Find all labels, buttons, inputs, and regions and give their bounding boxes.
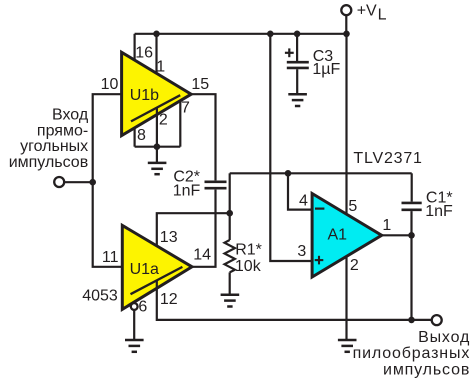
output terminal (432, 315, 442, 325)
wire R1 node up to IN- net (229, 173, 231, 213)
svg-text:угольных: угольных (20, 138, 88, 155)
wire C2 to U1a pin14 (192, 190, 216, 267)
wire A1 pin2 to ground (345, 256, 347, 340)
svg-text:1: 1 (382, 217, 391, 234)
svg-text:16: 16 (135, 44, 153, 61)
svg-text:1µF: 1µF (312, 61, 340, 78)
buffer U1b (122, 52, 192, 135)
node junction rail-VL (343, 31, 350, 38)
wire +V to pin3 of A1 (270, 34, 312, 261)
resistor R1 (225, 213, 235, 295)
terminal +VL (341, 5, 351, 34)
node junction input (89, 179, 96, 186)
pin 6 bubble (131, 303, 138, 310)
label A1 plus (315, 256, 324, 265)
wire input to U1b pin10 (93, 94, 122, 182)
capacitor C1 (402, 203, 422, 210)
capacitor C2 (205, 182, 227, 188)
svg-text:4: 4 (299, 192, 308, 209)
label C3 plus sign (285, 48, 294, 57)
label A1 minus (315, 208, 324, 210)
ground below pin 6 (125, 310, 144, 352)
wire pin16 drop (134, 34, 136, 62)
wire top +VL rail (135, 33, 347, 35)
svg-text:14: 14 (193, 247, 211, 264)
wire input to U1a pin11 (93, 182, 123, 267)
wire output down to rail (410, 235, 412, 320)
node junction rail-pin3drop (267, 31, 274, 38)
switch wiper inside U1b (131, 95, 180, 121)
svg-text:3: 3 (297, 243, 306, 260)
svg-text:R1*: R1* (235, 242, 262, 259)
svg-text:импульсов: импульсов (383, 362, 470, 379)
svg-text:A1: A1 (328, 227, 348, 244)
node junction U1b gnd (154, 143, 161, 150)
svg-text:4053: 4053 (82, 288, 118, 305)
node junction output C1 (408, 232, 415, 239)
wire to A1 pin4 (288, 173, 312, 209)
wire U1b pin7 (179, 100, 181, 147)
svg-text:U1a: U1a (130, 261, 159, 278)
wire U1a pin12 to output rail (157, 281, 432, 320)
wire A1 output (382, 234, 412, 236)
svg-text:1: 1 (156, 58, 165, 75)
ground below A1 (338, 340, 357, 352)
svg-text:5: 5 (348, 198, 357, 215)
wire input terminal to junction (65, 181, 93, 183)
switch wiper inside U1a (131, 267, 183, 294)
svg-text:Вход: Вход (52, 107, 89, 124)
node junction IN- branch (285, 170, 292, 177)
svg-text:L: L (378, 6, 387, 23)
wire U1b 8-2-7 rail (135, 146, 181, 148)
op-amp A1 (312, 194, 382, 278)
wire IN- net horizontal (230, 172, 412, 174)
svg-text:6: 6 (138, 298, 147, 315)
svg-text:импульсов: импульсов (9, 154, 89, 171)
input terminal (54, 177, 64, 187)
node junction rail-C3 (294, 31, 301, 38)
wire IN- net down to C1 (411, 173, 413, 201)
wire C1 to output (410, 211, 412, 235)
svg-text:пилообразных: пилообразных (353, 345, 471, 362)
node junction output rail (408, 317, 415, 324)
wire U1b pin8 (134, 127, 136, 147)
ground below C3 (288, 94, 307, 106)
svg-text:TLV2371: TLV2371 (353, 150, 422, 167)
svg-text:U1b: U1b (130, 87, 159, 104)
svg-text:8: 8 (137, 127, 146, 144)
wire pin13 loop to R1 node (157, 213, 230, 253)
wire U1b pin2 (156, 108, 158, 147)
svg-text:прямо-: прямо- (37, 122, 88, 139)
svg-text:13: 13 (160, 229, 178, 246)
buffer U1a (122, 225, 192, 309)
svg-text:2: 2 (159, 112, 168, 129)
svg-text:10: 10 (101, 76, 119, 93)
capacitor C3 (287, 34, 309, 93)
svg-text:2: 2 (350, 257, 359, 274)
svg-text:1nF: 1nF (425, 203, 453, 220)
wire pin1 drop (155, 34, 157, 82)
svg-text:15: 15 (191, 76, 209, 93)
wire U1b pin15 to C2 (191, 94, 215, 180)
svg-text:Выход: Выход (418, 329, 470, 346)
node junction R1 top (226, 210, 233, 217)
svg-text:7: 7 (181, 99, 190, 116)
svg-text:12: 12 (160, 291, 178, 308)
svg-text:10k: 10k (235, 258, 262, 275)
svg-text:+V: +V (357, 3, 377, 20)
node junction rail-pin1 (153, 31, 160, 38)
svg-text:1nF: 1nF (173, 183, 201, 200)
ground below U1b (148, 147, 167, 175)
svg-text:11: 11 (102, 249, 119, 266)
wire +V to pin5 of A1 (345, 34, 347, 214)
ground below R1 (221, 295, 240, 307)
